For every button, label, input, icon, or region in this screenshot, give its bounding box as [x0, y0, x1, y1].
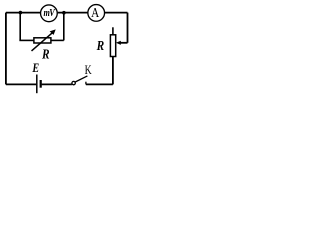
rheostat R (right, slider): [110, 27, 127, 56]
node junction dot left: [19, 11, 23, 15]
millivoltmeter mV: [41, 5, 58, 22]
wire top-right segment: [105, 12, 128, 14]
svg-text:R: R: [41, 46, 49, 61]
svg-text:mV: mV: [44, 8, 56, 19]
wire branch right vertical: [63, 13, 65, 41]
wire left border: [5, 13, 7, 85]
wire bottom-right segment: [86, 83, 113, 85]
node junction dot right: [62, 11, 66, 15]
wire right border: [127, 13, 129, 43]
wire top-left segment: [6, 12, 40, 14]
wire R bottom lead: [112, 57, 114, 85]
ammeter A: [88, 5, 105, 22]
switch K: [72, 76, 88, 85]
svg-text:A: A: [91, 5, 100, 20]
wire branch bottom-right: [51, 39, 64, 41]
wire branch bottom-left: [19, 39, 34, 41]
resistor R (variable, parallel with mV): [32, 29, 56, 51]
wire top middle segment: [58, 12, 88, 14]
wire bottom-left segment: [6, 83, 36, 85]
battery E: [37, 75, 41, 94]
svg-text:K: K: [85, 64, 93, 78]
wire branch left vertical: [19, 13, 21, 41]
svg-text:R: R: [96, 38, 104, 53]
wire bottom middle segment: [42, 83, 72, 85]
svg-text:E: E: [32, 61, 40, 75]
